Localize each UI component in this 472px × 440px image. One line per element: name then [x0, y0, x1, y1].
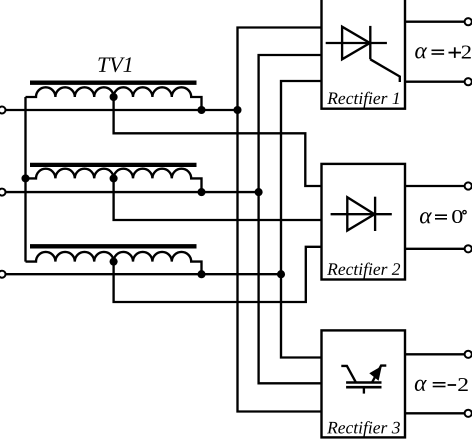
junction dot T3 right end	[197, 270, 205, 278]
device U3 gate stub	[363, 387, 365, 394]
output terminal 1 plus	[465, 18, 472, 25]
diode D1 cathode	[374, 197, 376, 231]
device U3 right lead	[372, 366, 386, 383]
device U3 left lead	[341, 366, 356, 382]
junction dot T2 tap	[110, 174, 118, 182]
wire phase A line	[6, 109, 238, 111]
thyristor U1 triangle	[342, 27, 370, 60]
rectifier 1 box	[322, 0, 406, 109]
input terminal phase C	[0, 271, 6, 278]
wire bus C	[281, 81, 322, 358]
thyristor U1 cathode	[369, 26, 371, 59]
device U3 lower bar	[346, 386, 381, 389]
junction dot T1 tap	[110, 93, 118, 101]
transformer T2 winding	[26, 169, 202, 192]
output terminal 1 minus	[465, 78, 472, 85]
wire rectifier 2 output plus	[405, 185, 465, 187]
transformer T2 core	[30, 163, 197, 167]
thyristor U1 line	[326, 42, 387, 44]
svg-text:α: α	[414, 371, 427, 397]
device U3 arrow	[369, 366, 382, 381]
wire bus A	[238, 28, 322, 412]
diode D1 line	[331, 213, 392, 215]
junction dot T2 left end	[21, 174, 29, 182]
wire phase C line	[6, 273, 282, 275]
diode D1 triangle	[347, 197, 374, 230]
output terminal 2 plus	[465, 182, 472, 189]
wire rectifier 3 output minus	[405, 412, 465, 414]
wire T3 tap to rectifier 2	[114, 247, 322, 302]
thyristor U1 gate	[370, 59, 400, 82]
svg-text:Rectifier 2: Rectifier 2	[326, 259, 401, 279]
wire rectifier 1 output plus	[405, 21, 465, 23]
svg-text:α: α	[419, 203, 432, 229]
output terminal 3 plus	[465, 351, 472, 358]
input terminal phase A	[0, 107, 6, 114]
svg-text:TV1: TV1	[97, 52, 134, 77]
wire rectifier 2 output minus	[405, 248, 465, 250]
wire rectifier 3 output plus	[405, 353, 465, 355]
label alpha plus	[414, 38, 472, 64]
label alpha minus	[414, 371, 469, 397]
output terminal 2 minus	[465, 245, 472, 252]
output terminal 3 minus	[465, 410, 472, 417]
device U3 upper bar	[346, 381, 381, 384]
svg-text:α: α	[414, 38, 427, 64]
junction dot T2 right end	[197, 188, 205, 196]
rectifier 2 box	[322, 164, 406, 280]
rectifier 3 box	[322, 330, 406, 437]
input terminal phase B	[0, 189, 6, 196]
wire T1 tap to rectifier 2	[114, 97, 322, 186]
transformer T1 winding	[26, 87, 202, 110]
wire T2 tap to rectifier 2	[114, 178, 322, 220]
svg-text:0: 0	[451, 205, 463, 228]
transformer T3 core	[30, 244, 197, 248]
transformer T1 core	[30, 81, 197, 85]
junction dot bus C phase C	[277, 270, 285, 278]
junction dot bus B phase B	[255, 188, 263, 196]
svg-text:2: 2	[461, 40, 472, 63]
svg-text:2: 2	[457, 372, 469, 395]
wire phase B line	[6, 191, 259, 193]
label alpha zero	[419, 203, 466, 229]
wire bus B	[259, 55, 322, 383]
wire rectifier 1 output minus	[405, 81, 465, 83]
svg-text:Rectifier 1: Rectifier 1	[326, 88, 400, 108]
svg-text:Rectifier 3: Rectifier 3	[326, 417, 401, 437]
wire star bus left	[24, 97, 26, 262]
junction dot T3 tap	[110, 258, 118, 266]
junction dot T1 right end	[197, 106, 205, 114]
transformer T3 winding	[26, 252, 202, 274]
junction dot bus A phase A	[233, 106, 241, 114]
